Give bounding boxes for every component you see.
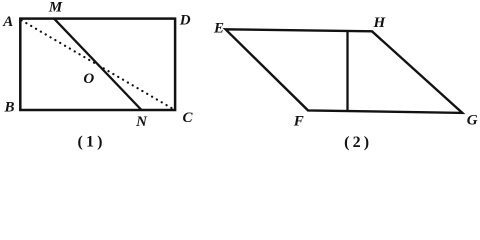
svg-text:F: F [293,114,304,130]
rectangle ABCD [20,19,175,110]
diagonal AC dotted [22,20,174,109]
svg-text:B: B [3,100,14,116]
line MN [54,19,142,110]
svg-text:M: M [48,0,63,15]
svg-text:D: D [179,13,191,29]
parallelogram EFGH [226,29,463,113]
svg-text:H: H [372,15,386,31]
svg-text:A: A [2,14,13,30]
svg-text:C: C [182,110,193,126]
svg-text:N: N [135,114,148,130]
svg-text:(2): (2) [344,134,372,151]
svg-text:(1): (1) [77,134,105,151]
svg-text:O: O [83,71,94,87]
internal vertical line [346,31,348,112]
svg-text:G: G [467,112,478,128]
svg-text:E: E [213,20,224,36]
